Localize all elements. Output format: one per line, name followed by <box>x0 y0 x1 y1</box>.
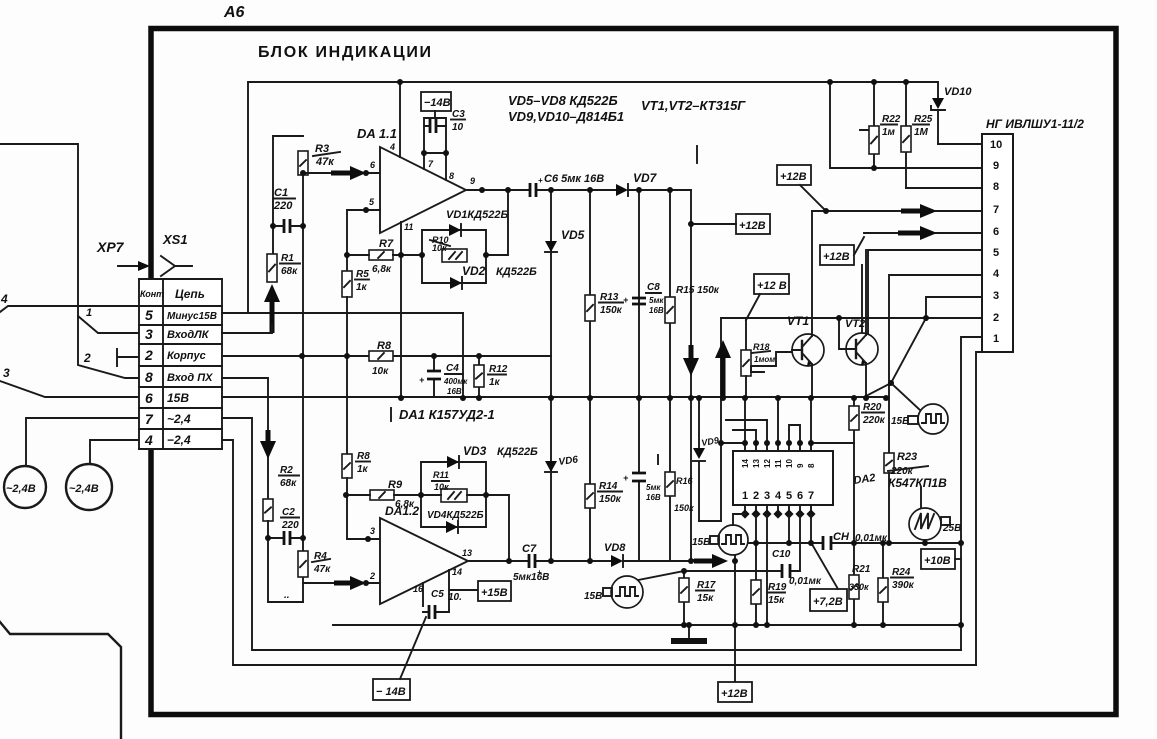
wire feedback to output <box>486 190 508 255</box>
svg-text:150к: 150к <box>674 503 694 513</box>
svg-text:C6 5мк 16В: C6 5мк 16В <box>544 173 604 185</box>
capacitor C7 <box>529 554 542 577</box>
wire pin 8 stub <box>445 153 447 180</box>
resistor R2 <box>263 499 273 521</box>
box +10V <box>921 549 955 569</box>
box +12V (to VD7 node) <box>736 214 770 234</box>
svg-text:2: 2 <box>83 351 91 365</box>
svg-text:1мом: 1мом <box>754 355 775 364</box>
svg-text:4: 4 <box>0 292 8 306</box>
wire IC aux links <box>726 420 800 443</box>
wire pin 6 <box>864 232 982 234</box>
svg-text:−14В: −14В <box>424 97 451 109</box>
capacitor C5 <box>429 605 435 619</box>
diode VD8 <box>611 555 623 567</box>
IC DA2 top pin numbers <box>741 459 816 468</box>
wire row ~2,4 to generator circle 1 <box>26 418 139 466</box>
svg-text:+: + <box>419 375 425 385</box>
resistor R20 <box>849 398 859 543</box>
wire 3 to 15V row <box>0 366 139 397</box>
svg-text:390к: 390к <box>892 580 915 591</box>
svg-text:15к: 15к <box>768 595 785 606</box>
svg-text:1М: 1М <box>914 127 929 138</box>
svg-text:10.: 10. <box>448 592 462 603</box>
box -14V (bottom) <box>373 679 410 700</box>
svg-text:5мк16В: 5мк16В <box>513 572 549 583</box>
svg-text:150к: 150к <box>600 305 623 316</box>
svg-text:6: 6 <box>145 390 153 406</box>
svg-text:16В: 16В <box>646 493 661 502</box>
label R19 15k <box>767 582 787 606</box>
wire VT2 emitter to bus <box>865 363 867 398</box>
svg-text:R22: R22 <box>882 114 901 125</box>
svg-text:25В: 25В <box>942 523 961 534</box>
generator circle ~2,4V (left) <box>4 466 46 508</box>
label VD3 KD522B <box>463 444 538 458</box>
svg-text:VD3: VD3 <box>463 444 487 458</box>
diode VD10 (zener) <box>931 82 945 144</box>
svg-text:DA1 К157УД2‑1: DA1 К157УД2‑1 <box>399 407 495 422</box>
label C8 5mk 16V <box>646 282 664 315</box>
resistor R11 <box>441 489 467 502</box>
svg-text:5мк: 5мк <box>646 483 661 492</box>
capacitor C6 <box>530 176 543 197</box>
svg-text:13: 13 <box>462 548 472 558</box>
label R22 1m <box>881 114 901 138</box>
svg-text:+: + <box>623 295 629 305</box>
svg-text:220: 220 <box>273 200 293 212</box>
box +12 V (R18) <box>754 274 789 294</box>
label R20 220k <box>862 402 886 426</box>
svg-text:VT1,VT2–КТ315Г: VT1,VT2–КТ315Г <box>641 98 746 113</box>
svg-text:150к: 150к <box>599 494 622 505</box>
capacitor CH <box>823 536 831 550</box>
svg-text:+7,2В: +7,2В <box>813 596 843 608</box>
indicator connector body <box>982 134 1013 352</box>
label R24 390k <box>891 567 915 591</box>
label R9 6,8k <box>388 479 415 510</box>
svg-text:R8: R8 <box>377 340 392 352</box>
svg-text:R25: R25 <box>914 114 933 125</box>
svg-text:+12В: +12В <box>721 688 748 700</box>
svg-text:− 14В: − 14В <box>376 686 406 698</box>
wire feedback top branch <box>422 230 486 255</box>
svg-text:R9: R9 <box>388 479 403 491</box>
wire meander diagonal to R17 node <box>638 571 684 580</box>
svg-text:КД522Б: КД522Б <box>497 446 538 458</box>
svg-text:8: 8 <box>993 181 999 193</box>
svg-text:15В: 15В <box>584 591 602 602</box>
svg-text:1к: 1к <box>357 464 369 475</box>
svg-text:R2: R2 <box>280 465 293 476</box>
box +12V (VT2) <box>820 245 854 265</box>
ground symbol <box>671 625 707 641</box>
signal arrow down on x691 <box>683 345 699 376</box>
wire pin 1 return <box>961 337 982 650</box>
svg-text:XS1: XS1 <box>162 232 188 247</box>
svg-text:VD9,VD10–Д814Б1: VD9,VD10–Д814Б1 <box>508 109 624 124</box>
wire output DA1.2 y561 <box>468 560 694 562</box>
svg-text:4: 4 <box>775 490 782 502</box>
label R4 47k <box>312 551 331 575</box>
svg-text:R23: R23 <box>897 451 917 463</box>
svg-text:47к: 47к <box>315 156 335 168</box>
wire R18 to VT1 base <box>751 352 792 372</box>
wire 4 to pin 5 row <box>0 292 139 312</box>
capacitor C8 <box>623 190 646 398</box>
pin table: frame <box>139 279 222 449</box>
resistor R6 (marked R8 1k) <box>342 454 352 478</box>
resistor R10 (in feedback) <box>442 249 467 262</box>
resistor R8 <box>369 351 393 361</box>
svg-text:R7: R7 <box>379 238 394 250</box>
capacitor C1 <box>273 219 303 233</box>
svg-text:БЛОК ИНДИКАЦИИ: БЛОК ИНДИКАЦИИ <box>258 44 433 61</box>
resistor R17 <box>679 571 689 625</box>
resistor R25 <box>901 82 911 188</box>
svg-text:12: 12 <box>763 459 772 468</box>
generator circle ~2,4V (right) <box>66 464 112 510</box>
signal arrow pin 6 <box>898 226 937 240</box>
svg-text:+: + <box>623 473 629 483</box>
resistor R1 <box>267 254 277 282</box>
svg-text:16В: 16В <box>649 306 664 315</box>
label R11 10k <box>432 470 449 492</box>
svg-text:7: 7 <box>993 204 999 216</box>
wire R2 to C2 node and loop <box>268 521 303 602</box>
svg-text:R11: R11 <box>433 470 449 480</box>
label C2 220 <box>281 507 299 531</box>
wire inverting input pin 5 <box>347 209 380 211</box>
annotation DA1 K157UD2-1 <box>391 407 495 422</box>
capacitor C3 <box>424 119 446 133</box>
IC DA2 body <box>733 451 833 505</box>
resistor R19 <box>751 514 761 625</box>
svg-text:15В: 15В <box>167 391 189 405</box>
capacitor C9 <box>623 398 646 561</box>
box +12V (bottom) <box>718 682 752 702</box>
label C7 5mk16V <box>513 543 549 583</box>
svg-text:4: 4 <box>389 142 395 152</box>
svg-text:VD5–VD8 КД522Б: VD5–VD8 КД522Б <box>508 93 618 108</box>
op-amp DA1.1 <box>380 147 466 233</box>
wire pin 11 vertical <box>400 222 402 398</box>
svg-text:10к: 10к <box>372 366 389 377</box>
resistor R13 <box>585 190 595 398</box>
label 15V (IC meander) <box>692 536 719 548</box>
svg-text:1: 1 <box>86 307 92 319</box>
label C10 0,01mk <box>772 549 822 587</box>
signal arrow up (Vhod LK) <box>264 284 280 333</box>
svg-text:R12: R12 <box>489 364 508 375</box>
wire R6 to R9 node <box>346 478 348 495</box>
svg-text:C3: C3 <box>452 109 465 120</box>
svg-text:C8: C8 <box>647 282 660 293</box>
wire output DA1.1 <box>466 189 691 191</box>
svg-text:3: 3 <box>3 366 10 380</box>
svg-text:R14: R14 <box>599 481 618 492</box>
wire meander to IC pin1 column <box>733 514 745 525</box>
pin 14 stub and +15V <box>423 570 478 612</box>
feedback bottom branch with VD4 <box>421 495 486 527</box>
oscillogram 15V (meander, at IC) <box>718 525 748 555</box>
wire Korpus bus y356 <box>222 355 551 357</box>
svg-text:8: 8 <box>807 463 816 468</box>
wire feedback to output <box>486 495 509 561</box>
diode VD2 <box>450 277 462 289</box>
wire C1/R3 loop top <box>273 136 303 254</box>
label R18 1mom <box>752 342 775 364</box>
svg-text:220к: 220к <box>862 415 886 426</box>
label 15V (lower meander) <box>584 588 612 602</box>
svg-text:16В: 16В <box>447 387 462 396</box>
svg-text:11: 11 <box>774 459 783 468</box>
label R25 1M <box>913 114 933 138</box>
wire -14V to C5 <box>400 617 426 679</box>
op-amp DA1.2 <box>380 518 468 604</box>
svg-text:R24: R24 <box>892 567 911 578</box>
wire 2 to Korpus row <box>83 349 139 366</box>
oscillogram 25V (sawtooth) <box>909 508 941 540</box>
wire R4 tee to DA1.2 input <box>303 582 380 584</box>
wire pin6 to C10 <box>790 514 800 571</box>
svg-text:VD5: VD5 <box>561 228 585 242</box>
svg-text:6: 6 <box>993 226 999 238</box>
wire IC pins to 15V bus <box>745 398 811 443</box>
wire top -15V rail <box>248 82 938 313</box>
svg-text:~2,4: ~2,4 <box>167 412 191 426</box>
svg-text:0,01мк: 0,01мк <box>789 576 822 587</box>
wire R9 ends <box>347 494 421 496</box>
label R7 6,8k <box>372 238 394 275</box>
svg-text:Конт: Конт <box>140 289 164 299</box>
wire sawtooth bottom to CH line <box>924 540 926 543</box>
wire VT2 collector <box>865 250 867 335</box>
svg-text:1к: 1к <box>489 377 501 388</box>
svg-text:НГ ИВЛШУ1‑11/2: НГ ИВЛШУ1‑11/2 <box>986 117 1084 131</box>
XS1 socket symbol <box>161 256 192 276</box>
svg-text:XP7: XP7 <box>96 239 125 255</box>
svg-text:Корпус: Корпус <box>167 350 206 362</box>
svg-text:14: 14 <box>741 459 750 468</box>
wire +12V box1 diagonal <box>800 185 826 211</box>
diode VD3 <box>447 456 459 468</box>
wire return y650 (row ~2,4 to pin1) <box>222 418 961 650</box>
svg-text:11: 11 <box>404 222 413 232</box>
wire minus15V row to riser <box>222 312 463 314</box>
svg-text:R16: R16 <box>676 476 694 486</box>
wire R5 down to lower stage <box>346 297 348 454</box>
wire VT1 collector <box>811 211 813 336</box>
wire feedback middle <box>421 494 486 496</box>
wire VD7 line corner down x691 <box>690 190 692 560</box>
resistor R24 <box>878 543 888 625</box>
svg-text:3: 3 <box>764 490 770 502</box>
wire R7 ends <box>347 254 422 256</box>
diode VD6 <box>545 398 557 561</box>
signal arrow into DA1.2 input <box>334 576 366 590</box>
svg-text:~2,4B: ~2,4B <box>6 483 36 495</box>
wire pin 4 supply from top rail <box>399 82 401 157</box>
svg-text:7: 7 <box>145 411 154 427</box>
svg-text:9: 9 <box>993 160 999 172</box>
svg-text:68к: 68к <box>280 478 297 489</box>
svg-text:68к: 68к <box>281 266 298 277</box>
svg-text:ВходЛК: ВходЛК <box>167 329 210 341</box>
wire meander diagonal to bus <box>866 383 920 410</box>
svg-text:16: 16 <box>413 584 424 594</box>
svg-text:10: 10 <box>990 139 1002 151</box>
label C4 400mk 16V <box>443 363 468 396</box>
svg-text:400мк: 400мк <box>443 377 468 386</box>
svg-text:15В: 15В <box>891 416 909 427</box>
resistor R9 <box>370 490 394 500</box>
svg-text:9: 9 <box>796 463 805 468</box>
label C9 5mk 16V <box>646 483 661 502</box>
wire under-connector return <box>976 352 982 665</box>
wire 15V bus y398 <box>222 396 886 398</box>
svg-text:+12 В: +12 В <box>757 280 787 292</box>
transistor VT2 <box>846 333 878 365</box>
resistor R5 <box>342 271 352 297</box>
svg-text:К547КП1В: К547КП1В <box>888 476 947 490</box>
svg-text:R1: R1 <box>281 253 294 264</box>
svg-text:R5: R5 <box>356 269 369 280</box>
svg-text:8: 8 <box>145 369 153 385</box>
resistor R14 <box>585 398 595 561</box>
wire pin 10 from VD10 <box>938 143 982 145</box>
svg-text:5: 5 <box>786 490 792 502</box>
resistor R15 <box>665 190 675 398</box>
svg-text:13: 13 <box>752 459 761 468</box>
label R23 220k struck <box>888 451 928 477</box>
oscillogram 15V (meander, lower left) <box>611 576 643 608</box>
svg-text:VT2: VT2 <box>845 318 865 330</box>
svg-text:47к: 47к <box>313 564 331 575</box>
svg-text:R21: R21 <box>852 564 871 575</box>
wire pin 4 to R23 <box>889 275 982 453</box>
svg-text:2: 2 <box>993 312 999 324</box>
wire Vhod PH row down x268 <box>222 378 268 499</box>
svg-text:15к: 15к <box>697 593 714 604</box>
svg-text:VT1: VT1 <box>787 314 809 328</box>
box +12V (pin7) <box>777 165 811 185</box>
IC DA2 top pin stubs <box>745 443 811 451</box>
wire return y665 (row -2,4) <box>222 440 976 665</box>
svg-text:R13: R13 <box>600 292 619 303</box>
svg-text:2: 2 <box>369 571 375 581</box>
svg-text:C2: C2 <box>282 507 295 518</box>
label R3 47k <box>313 143 340 168</box>
svg-text:14: 14 <box>452 567 462 577</box>
svg-text:..: .. <box>284 590 290 601</box>
svg-text:VD7: VD7 <box>633 171 658 185</box>
wire R23 down to CH line <box>888 473 890 543</box>
svg-text:1к: 1к <box>356 282 368 293</box>
label R17 15k <box>696 580 716 604</box>
resistor R21 <box>849 543 859 625</box>
svg-text:5: 5 <box>145 307 153 323</box>
wire common bus y625 <box>333 624 961 626</box>
label R14 150k <box>598 481 622 505</box>
label R8 10k <box>372 340 392 377</box>
svg-text:1м: 1м <box>882 127 896 138</box>
svg-text:2: 2 <box>753 490 759 502</box>
svg-text:10: 10 <box>785 459 794 468</box>
wire VT1 emitter to bus <box>811 364 813 398</box>
svg-text:C5: C5 <box>431 589 444 600</box>
svg-text:10: 10 <box>452 122 464 133</box>
svg-text:+12В: +12В <box>739 220 766 232</box>
svg-text:R15 150к: R15 150к <box>676 285 720 296</box>
wire CH line y543 <box>748 542 961 544</box>
svg-text:C10: C10 <box>772 549 791 560</box>
wire pin 8 <box>906 187 982 189</box>
label CH 0,01mk <box>833 531 888 544</box>
wire pin 2 long bus <box>721 318 982 521</box>
svg-text:4: 4 <box>993 268 1000 280</box>
label VD2 KD522B <box>462 264 537 278</box>
svg-text:6: 6 <box>797 490 803 502</box>
wire 1 to Vhod LK row <box>0 144 139 333</box>
svg-text:VD2: VD2 <box>462 264 486 278</box>
svg-text:+15В: +15В <box>481 587 508 599</box>
diode VD9 <box>693 398 705 521</box>
wire row -2,4 to generator circle 2 <box>90 440 139 463</box>
wire R5/R7 node vertical <box>346 210 348 271</box>
resistor R12 <box>474 356 484 397</box>
label R13 150k <box>599 292 623 316</box>
resistor R16 <box>665 398 675 561</box>
wire Vhod LK row to R1 <box>222 325 272 333</box>
svg-text:CН: CН <box>833 531 850 543</box>
resistor R7 <box>369 250 393 260</box>
wire riser x463 down to 15V bus <box>462 313 464 398</box>
wire line y571 with C10 <box>684 570 782 572</box>
svg-text:7: 7 <box>808 490 814 502</box>
stray tick <box>696 146 698 163</box>
svg-text:VD8: VD8 <box>604 542 626 554</box>
signal arrow into meander column <box>691 554 728 568</box>
svg-text:2: 2 <box>144 347 153 363</box>
svg-text:VD4КД522Б: VD4КД522Б <box>427 510 484 521</box>
label R5 1k <box>355 269 369 293</box>
svg-text:DA1.2: DA1.2 <box>385 504 419 518</box>
capacitor C2 <box>284 531 290 545</box>
signal arrow pin 7 <box>901 204 937 218</box>
svg-text:Минус15В: Минус15В <box>167 311 217 322</box>
resistor R22 <box>860 82 879 168</box>
wire pin 7 stub <box>423 153 425 169</box>
label C1 220 <box>273 187 295 212</box>
wire +10V to riser <box>955 558 961 560</box>
svg-text:4: 4 <box>144 432 153 448</box>
svg-text:330к: 330к <box>849 582 869 592</box>
capacitor C10 <box>782 564 790 578</box>
transistor VT1 <box>792 334 824 366</box>
wire pin 3 to sawtooth <box>921 297 982 508</box>
wire pin 9 <box>830 82 982 168</box>
svg-text:10к: 10к <box>434 482 449 492</box>
svg-text:VD1КД522Б: VD1КД522Б <box>446 209 508 221</box>
XP7 plug arrow <box>118 261 150 271</box>
wire R3 tee to op-amp input 6 <box>303 172 380 174</box>
svg-text:~2,4B: ~2,4B <box>69 483 99 495</box>
svg-text:9: 9 <box>470 176 475 186</box>
svg-text:+12В: +12В <box>823 251 850 263</box>
label 25V <box>941 517 961 534</box>
svg-text:8: 8 <box>449 171 454 181</box>
